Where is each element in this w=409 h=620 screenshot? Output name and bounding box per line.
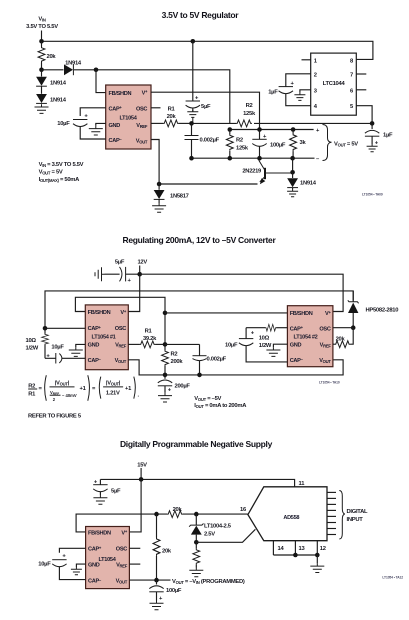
svg-text:LT1004-2.5: LT1004-2.5: [204, 524, 232, 530]
svg-text:VOUT = –VIN (PROGRAMMED): VOUT = –VIN (PROGRAMMED): [172, 579, 245, 585]
capacitor 10uF (U4 pump): [225, 328, 287, 362]
wire VIN entry: [41, 31, 43, 42]
svg-text:125k: 125k: [236, 145, 249, 151]
wire VOUT pin to 1N5817: [151, 140, 159, 185]
svg-text:+1: +1: [125, 386, 132, 392]
wire 12V rail: [140, 274, 343, 311]
wire V+ to output rail: [151, 92, 260, 129]
diode LT1004-2.5 (zener): [189, 514, 232, 542]
node junction 200uF/R2: [163, 373, 168, 378]
diode HP5082-2810: [348, 291, 398, 328]
svg-text:VOUT: VOUT: [115, 358, 127, 364]
svg-text:20k: 20k: [336, 336, 346, 342]
capacitor 1uF (output): [365, 123, 393, 146]
svg-text:VOUT = –5V: VOUT = –5V: [194, 396, 221, 402]
svg-text:VIN = 3.5V TO 5.5V: VIN = 3.5V TO 5.5V: [39, 162, 84, 168]
svg-text:1N914: 1N914: [65, 61, 82, 67]
svg-text:3.5V to 5V Regulator: 3.5V to 5V Regulator: [162, 10, 240, 20]
wire 15V rail: [100, 479, 294, 486]
ground (DAC pins): [310, 555, 324, 573]
wire pin1 stub: [302, 59, 311, 61]
svg-text:13: 13: [298, 546, 305, 552]
svg-text:IOUT = 0mA to 200mA: IOUT = 0mA to 200mA: [194, 403, 247, 409]
wire VOUT rail (circuit 2): [128, 360, 343, 375]
svg-text:HP5082-2810: HP5082-2810: [366, 308, 399, 314]
svg-text:20k: 20k: [167, 114, 177, 120]
capacitor 100uF (output): [149, 580, 182, 602]
svg-text:10Ω: 10Ω: [259, 336, 270, 342]
label DIGITAL INPUT: [347, 509, 369, 523]
node junction FB riser: [94, 68, 99, 73]
svg-text:10µF: 10µF: [38, 561, 51, 567]
diode 1N5817: [154, 184, 189, 200]
svg-text:VOUT = 5V: VOUT = 5V: [39, 169, 63, 175]
svg-text:DIGITAL: DIGITAL: [347, 509, 369, 515]
node junction 3k top: [291, 127, 296, 132]
capacitor 0.002uF: [185, 123, 220, 158]
svg-text:LT1054 • TA10: LT1054 • TA10: [319, 381, 340, 385]
resistor 10 ohm 1/2W (U4): [246, 324, 287, 349]
op-amp U5 LT1054: [86, 527, 130, 589]
wire VREF stub U5: [129, 563, 140, 565]
svg-text:2: 2: [314, 72, 317, 78]
svg-text:GND: GND: [88, 343, 100, 349]
formula R2/R1: [28, 375, 139, 402]
wire pins 14/13/12 ground bus: [273, 554, 317, 556]
svg-text:2N2219: 2N2219: [242, 169, 262, 175]
brace digital input: [339, 491, 345, 540]
node junction OSC U4: [351, 325, 356, 330]
svg-text:LT1054: LT1054: [98, 557, 116, 563]
svg-text:1/2W: 1/2W: [26, 346, 39, 352]
svg-text:R1: R1: [168, 107, 176, 113]
svg-text:R1: R1: [28, 391, 36, 397]
wire FB loop U3: [75, 297, 165, 313]
svg-text:OSC: OSC: [115, 326, 126, 332]
svg-text:INPUT: INPUT: [347, 517, 364, 523]
wire output + rail (line B): [230, 129, 314, 131]
node junction 0.002uF bottom: [189, 156, 194, 161]
capacitor 5uF (bypass): [186, 41, 211, 112]
node junction pin12 gnd: [315, 553, 320, 558]
svg-text:IOUT(MAX) = 50mA: IOUT(MAX) = 50mA: [39, 177, 81, 183]
resistor 20k (horizontal, FB): [167, 507, 248, 518]
svg-text:R1: R1: [145, 329, 153, 335]
svg-text:Digitally Programmable Negativ: Digitally Programmable Negative Supply: [120, 439, 273, 449]
node VIN label: [26, 17, 58, 31]
svg-text:0.002µF: 0.002µF: [207, 357, 227, 363]
node junction 100uF bottom / collector: [257, 156, 262, 161]
wire digital input lines: [327, 492, 336, 534]
ground (200uF): [158, 393, 172, 402]
svg-text:10µF: 10µF: [225, 343, 238, 349]
svg-text:1/2W: 1/2W: [259, 343, 272, 349]
svg-text:OSC: OSC: [136, 106, 147, 112]
node junction 0.002uF bottom: [197, 373, 202, 378]
node junction LT1004 anode: [194, 540, 199, 545]
svg-text:VREF: VREF: [115, 343, 127, 349]
svg-text:200µF: 200µF: [175, 384, 191, 390]
svg-text:FB/SHDN: FB/SHDN: [88, 310, 111, 316]
resistor 20k (U4 VREF): [333, 328, 353, 348]
svg-text:12V: 12V: [137, 260, 147, 266]
svg-text:FB/SHDN: FB/SHDN: [290, 311, 313, 317]
ground (1uF output): [367, 144, 378, 152]
ground (U3 GND): [69, 344, 86, 356]
node junction FB/V+ row: [163, 311, 168, 316]
svg-text:200k: 200k: [171, 359, 184, 365]
svg-text:R2: R2: [246, 103, 253, 109]
capacitor 100uF: [252, 130, 286, 159]
svg-text:LT1054 #1: LT1054 #1: [92, 334, 116, 340]
svg-text:VREF: VREF: [136, 123, 148, 129]
svg-text:10µF: 10µF: [57, 121, 70, 127]
resistor R2 125k (horizontal): [236, 103, 256, 127]
wire top V+ rail: [42, 41, 373, 59]
svg-text:7: 7: [350, 72, 353, 78]
svg-text:Regulating 200mA, 12V to –5V C: Regulating 200mA, 12V to –5V Converter: [123, 235, 277, 245]
svg-text:|VOUT|: |VOUT|: [106, 381, 121, 387]
resistor 10 ohm 1/2W (U3): [26, 328, 49, 358]
diode 1N914 (clamp): [287, 172, 317, 187]
ground (100uF): [150, 601, 164, 610]
svg-text:LT1054 • TA12: LT1054 • TA12: [382, 576, 403, 580]
diode 1N914 D2: [36, 70, 67, 87]
capacitor 10uF (pump): [57, 108, 105, 139]
node junction 100uF top: [257, 127, 262, 132]
wire OSC stub U5: [129, 547, 140, 549]
wire pin6 stub: [356, 89, 366, 91]
capacitor 200uF: [158, 375, 191, 394]
svg-text:20k: 20k: [47, 54, 57, 60]
wire output - rail (line C): [192, 157, 315, 159]
ground (LTC1044 pin3): [294, 90, 310, 101]
svg-text:5µF: 5µF: [201, 104, 211, 110]
svg-text:VREF: VREF: [320, 343, 332, 349]
wire V+ riser U3: [128, 274, 139, 311]
ground (5uF bypass): [93, 495, 107, 504]
ground (input divider): [35, 104, 49, 113]
svg-text:REFER TO FIGURE 5: REFER TO FIGURE 5: [28, 413, 82, 419]
svg-text:VREF: VREF: [116, 563, 128, 569]
wire FB/SHDN stub: [96, 70, 106, 93]
svg-text:R2: R2: [171, 352, 178, 358]
label circuit1 conditions: [39, 162, 84, 183]
svg-text:1N914: 1N914: [50, 98, 67, 104]
op-amp U2 LTC1044: [311, 53, 357, 115]
svg-text:VOUT: VOUT: [136, 138, 148, 144]
op-amp U3 LT1054 #1: [85, 305, 128, 370]
diode 1N914 D3: [36, 87, 67, 104]
wire V+ riser U5: [129, 479, 141, 532]
capacitor 1uF (LTC1044 pump): [268, 74, 310, 106]
node junction R2v bottom: [228, 156, 233, 161]
svg-text:2.5V: 2.5V: [204, 532, 215, 538]
ground (bias resistor): [189, 568, 203, 577]
svg-text:VOUT: VOUT: [319, 358, 331, 364]
svg-text:11: 11: [299, 481, 306, 487]
node junction 12V: [137, 272, 142, 277]
wire 15V entry: [140, 468, 142, 479]
svg-text:GND: GND: [88, 563, 100, 569]
svg-text:16: 16: [240, 507, 247, 513]
ground (clamp): [287, 188, 298, 197]
ground (U5 GND): [71, 564, 86, 575]
wire OSC stub U4: [333, 327, 353, 329]
capacitor 5uF (input): [105, 260, 140, 284]
svg-text:15V: 15V: [137, 463, 147, 469]
svg-text:39.2k: 39.2k: [143, 336, 157, 342]
wire pin7 stub: [356, 73, 366, 75]
svg-text:+1: +1: [80, 386, 87, 392]
svg-text:100µF: 100µF: [166, 588, 182, 594]
svg-text:20k: 20k: [173, 507, 183, 513]
capacitor 5uF (15V bypass): [93, 479, 121, 495]
ground (5uF input, rotated): [95, 267, 105, 281]
wire feedback line A: [192, 122, 373, 124]
node junction VOUT/100uF: [154, 578, 159, 583]
resistor R1 20k: [151, 107, 192, 127]
svg-text:1N914: 1N914: [300, 181, 317, 187]
node junction R2v top: [228, 127, 233, 132]
ground (1N5817): [152, 199, 166, 212]
node junction CAP+ U3: [43, 326, 48, 331]
svg-text:FB/SHDN: FB/SHDN: [88, 530, 111, 536]
svg-text:OSC: OSC: [116, 547, 127, 553]
wire base to clamp node: [292, 158, 294, 173]
op-amp U1 LT1054 (regulator): [106, 85, 151, 149]
svg-text:100µF: 100µF: [270, 143, 286, 149]
wire VOUT line U5: [129, 579, 170, 581]
wire FB node riser: [164, 313, 166, 350]
svg-text:AD558: AD558: [283, 515, 299, 521]
resistor R2 125k (vertical): [226, 130, 248, 159]
svg-text:1µF: 1µF: [268, 90, 278, 96]
wire 12V entry: [139, 266, 141, 275]
op-amp U6 AD558 DAC: [248, 487, 327, 541]
wire VREF line to 0.002uF: [165, 343, 200, 345]
svg-text:|VOUT|: |VOUT|: [55, 381, 70, 387]
node junction FB node: [189, 121, 194, 126]
svg-text:10Ω: 10Ω: [26, 338, 37, 344]
ground (U1 GND pin): [89, 123, 106, 135]
resistor 20k (vertical): [153, 514, 172, 580]
resistor R1 39.2k: [128, 329, 165, 348]
resistor 20k (input divider): [38, 41, 56, 70]
wire pin5 to output: [356, 106, 372, 124]
wire FB feed line: [96, 70, 230, 124]
svg-text:GND: GND: [109, 123, 121, 129]
svg-text:5µF: 5µF: [111, 489, 121, 495]
node junction pin13 gnd: [293, 553, 298, 558]
capacitor 0.002uF (U3): [193, 344, 227, 375]
svg-text:GND: GND: [290, 343, 302, 349]
wire CAP+ sync rail: [45, 291, 353, 328]
svg-text:14: 14: [277, 546, 284, 552]
wire anode to DAC vout sense: [196, 529, 255, 542]
resistor bias (unlabeled): [193, 542, 200, 567]
svg-text:LT1054 #2: LT1054 #2: [294, 334, 318, 340]
svg-text:20k: 20k: [162, 549, 172, 555]
node junction pin5/lineA: [370, 121, 375, 126]
node junction VIN rail: [39, 39, 44, 44]
wire CAP+ stub U3: [45, 327, 85, 329]
wire FB loop U5: [76, 514, 167, 532]
node junction 15V: [139, 477, 144, 482]
svg-text:5µF: 5µF: [115, 260, 125, 266]
capacitor 10uF (U3 pump): [45, 345, 85, 364]
svg-text:FB/SHDN: FB/SHDN: [109, 91, 132, 97]
diode 1N914 D1: [42, 61, 97, 76]
svg-text:3.5V TO 5.5V: 3.5V TO 5.5V: [26, 24, 58, 30]
svg-text:10µF: 10µF: [51, 345, 64, 351]
svg-text:LT1054: LT1054: [119, 115, 137, 121]
node junction LT1004 top: [194, 512, 199, 517]
svg-text:1N914: 1N914: [50, 81, 67, 87]
pin boxes 14 13 12: [273, 541, 325, 555]
svg-text:LTC1044: LTC1044: [323, 81, 346, 87]
node junction FB/20k: [154, 512, 159, 517]
svg-text:1N5817: 1N5817: [170, 194, 189, 200]
svg-text:R2: R2: [236, 138, 243, 144]
transistor Q1 2N2219: [159, 160, 293, 184]
svg-text:12: 12: [320, 546, 326, 552]
svg-text:LT1054 • TA09: LT1054 • TA09: [362, 193, 383, 197]
ground (U4 GND): [266, 344, 287, 356]
svg-text:0.002µF: 0.002µF: [200, 138, 220, 144]
node junction divider: [39, 68, 44, 73]
node junction base/clamp: [290, 170, 295, 175]
op-amp U4 LT1054 #2: [287, 306, 333, 367]
resistor 3k: [290, 130, 307, 159]
svg-text:VOUT: VOUT: [116, 579, 128, 585]
wire FB line to U4: [165, 312, 287, 314]
capacitor 10uF (U5 pump): [38, 548, 85, 579]
svg-text:1µF: 1µF: [383, 133, 393, 139]
ground (5uF): [187, 110, 198, 124]
node junction 5uF tap: [191, 39, 196, 44]
node junction R1/R2: [163, 342, 168, 347]
svg-text:VIN: VIN: [38, 17, 45, 23]
node junction 3k bottom: [290, 156, 295, 161]
resistor R2 200k: [162, 350, 184, 375]
brace VOUT: [323, 125, 332, 161]
svg-text:VOUT = 5V: VOUT = 5V: [334, 142, 358, 148]
svg-text:125k: 125k: [243, 111, 256, 117]
node junction emitter line: [157, 182, 162, 187]
svg-text:1.21V: 1.21V: [106, 390, 120, 396]
svg-text:– 40mV: – 40mV: [62, 393, 77, 398]
wire OSC stub: [151, 107, 161, 109]
svg-text:OSC: OSC: [319, 326, 330, 332]
